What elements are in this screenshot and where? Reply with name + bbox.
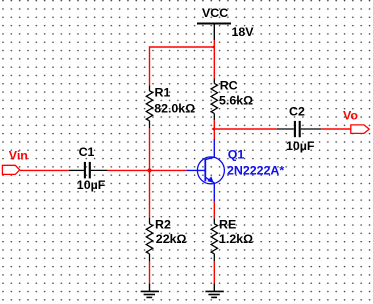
wire C2 to Vo port: [321, 128, 351, 130]
wire R2 bottom to ground: [149, 261, 151, 284]
wire C1 to base node: [107, 169, 186, 171]
resistor R1: [146, 85, 152, 128]
svg-text:VCC: VCC: [202, 6, 228, 20]
resistor RC: [211, 79, 217, 121]
junction at collector node: [212, 127, 215, 132]
wire R1 top (vertical): [149, 46, 151, 85]
svg-text:C1: C1: [79, 145, 95, 159]
resistor RE: [211, 218, 217, 261]
wire emitter to RE: [213, 202, 215, 219]
svg-text:RE: RE: [219, 218, 236, 232]
junction at VCC branch: [212, 45, 215, 50]
svg-text:18V: 18V: [232, 25, 255, 39]
wire VCC trunk (red vertical to RC top): [213, 40, 215, 79]
svg-text:Vin: Vin: [9, 149, 28, 163]
wire collector node to C2: [214, 128, 276, 130]
svg-text:1.2kΩ: 1.2kΩ: [219, 232, 253, 246]
svg-text:R2: R2: [155, 218, 171, 232]
svg-text:5.6kΩ: 5.6kΩ: [219, 94, 253, 108]
svg-text:RC: RC: [220, 79, 238, 93]
svg-text:2N2222A*: 2N2222A*: [227, 163, 284, 177]
svg-text:Vo: Vo: [343, 108, 358, 122]
svg-text:R1: R1: [155, 86, 171, 100]
power VCC symbol: [197, 24, 231, 41]
ground (right): [205, 284, 223, 298]
svg-text:Q1: Q1: [228, 147, 245, 161]
port Vin: [2, 165, 19, 174]
wire R1 bottom to R2 top (vertical through base junction): [149, 128, 151, 218]
capacitor C2: [277, 121, 322, 137]
ground (left): [141, 284, 159, 298]
svg-text:82.0kΩ: 82.0kΩ: [154, 102, 195, 116]
wire RC bottom to collector: [213, 120, 215, 139]
junction at base node: [147, 168, 153, 174]
svg-text:10µF: 10µF: [77, 178, 106, 192]
svg-text:22kΩ: 22kΩ: [156, 232, 187, 246]
wire Vin to C1: [20, 169, 69, 171]
transistor Q1: [186, 139, 224, 202]
svg-text:C2: C2: [289, 104, 305, 118]
svg-text:10µF: 10µF: [286, 139, 315, 153]
wire RE bottom to ground: [213, 261, 215, 284]
capacitor C1: [69, 162, 108, 179]
port Vo: [351, 125, 369, 133]
resistor R2: [146, 218, 152, 261]
wire branch to R1 (horizontal): [150, 46, 215, 48]
